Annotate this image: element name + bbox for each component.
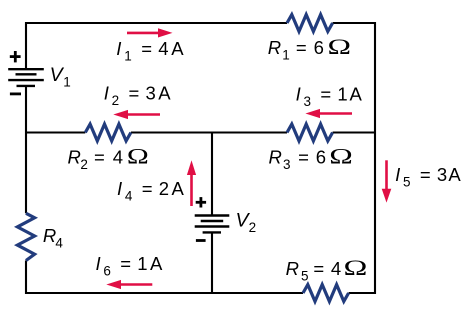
svg-text:4: 4 [113,147,123,168]
svg-text:A: A [171,38,184,59]
svg-text:I: I [104,83,109,104]
svg-text:R: R [269,147,282,168]
svg-text:I: I [96,253,101,274]
svg-text:5: 5 [403,175,411,190]
svg-text:4: 4 [55,236,63,251]
svg-text:=: = [142,178,153,199]
svg-text:1: 1 [124,49,132,64]
svg-text:2: 2 [80,157,88,172]
svg-text:=: = [94,147,105,168]
svg-text:Ω: Ω [344,255,368,280]
svg-text:I: I [395,164,400,185]
svg-text:R: R [43,225,56,246]
svg-text:=: = [129,83,140,104]
svg-text:A: A [350,84,363,105]
svg-text:2: 2 [159,178,169,199]
svg-text:6: 6 [103,264,111,279]
svg-text:A: A [150,253,163,274]
svg-text:=: = [141,38,152,59]
svg-text:R: R [286,258,299,279]
svg-text:R: R [268,37,281,58]
svg-text:4: 4 [158,38,168,59]
svg-text:I: I [117,178,122,199]
svg-text:=: = [313,258,324,279]
svg-text:6: 6 [314,37,324,58]
svg-text:3: 3 [437,164,447,185]
svg-text:5: 5 [301,269,309,284]
svg-text:3: 3 [304,94,312,109]
svg-text:=: = [120,253,131,274]
svg-text:Ω: Ω [329,144,353,168]
svg-text:Ω: Ω [328,35,352,59]
svg-text:6: 6 [316,147,326,168]
svg-text:1: 1 [337,84,347,105]
svg-text:3: 3 [146,83,156,104]
svg-text:1: 1 [137,253,147,274]
svg-text:=: = [320,84,331,105]
svg-text:1: 1 [282,48,290,63]
svg-text:Ω: Ω [127,144,149,169]
svg-text:=: = [296,37,307,58]
svg-text:2: 2 [112,93,120,108]
svg-text:=: = [298,147,309,168]
svg-text:4: 4 [125,189,133,204]
svg-text:A: A [448,164,461,185]
svg-text:A: A [158,83,171,104]
svg-text:1: 1 [63,75,71,90]
svg-text:A: A [172,178,185,199]
svg-text:4: 4 [331,258,341,279]
svg-text:=: = [420,164,431,185]
svg-text:3: 3 [283,157,291,172]
svg-text:R: R [68,147,81,168]
svg-text:I: I [296,84,301,105]
svg-text:2: 2 [249,220,257,235]
svg-text:I: I [116,38,121,59]
